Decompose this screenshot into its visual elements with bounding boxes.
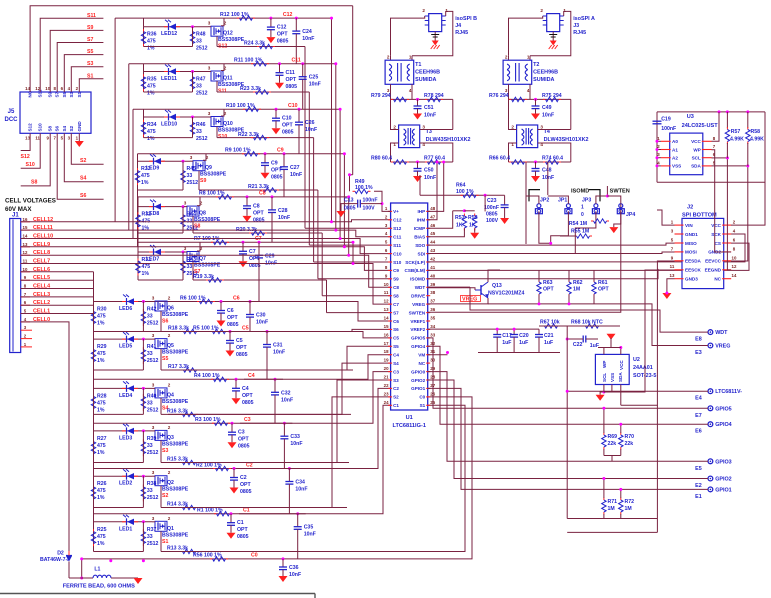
svg-text:J3: J3 xyxy=(573,23,579,29)
svg-text:15: 15 xyxy=(23,225,28,230)
svg-text:33: 33 xyxy=(147,400,153,406)
capacitor C9 OPT xyxy=(261,162,269,164)
svg-text:R3 100 1%: R3 100 1% xyxy=(195,417,221,423)
wire to C2 xyxy=(233,469,235,478)
svg-text:2: 2 xyxy=(168,333,171,338)
svg-text:100 1%: 100 1% xyxy=(456,189,474,195)
wire GPIO pin28 to E xyxy=(428,380,708,479)
LED5 xyxy=(122,338,126,340)
wire LTC6811V- to E4 xyxy=(567,390,708,392)
svg-text:2512: 2512 xyxy=(147,541,159,547)
svg-text:JP4: JP4 xyxy=(626,212,635,218)
wire Q7 source xyxy=(197,242,200,251)
svg-text:S8: S8 xyxy=(48,125,53,131)
svg-text:C6: C6 xyxy=(227,308,234,314)
svg-text:10: 10 xyxy=(732,255,737,260)
svg-text:E2: E2 xyxy=(695,483,702,489)
svg-text:C5: C5 xyxy=(236,338,243,344)
svg-text:SWTEN: SWTEN xyxy=(409,310,426,315)
svg-text:100V: 100V xyxy=(363,206,376,212)
svg-text:C6: C6 xyxy=(393,319,399,324)
wire bottom right rails xyxy=(566,430,568,519)
wire ICMP line xyxy=(419,175,421,195)
ground C48 xyxy=(531,176,540,182)
wire S8 line xyxy=(193,232,322,234)
svg-text:S5: S5 xyxy=(62,91,67,97)
resistor R79 294 xyxy=(391,98,394,100)
wire T1 secondary xyxy=(390,84,392,99)
svg-text:2: 2 xyxy=(511,125,514,130)
wire LED4 row xyxy=(94,387,153,389)
svg-text:OPT: OPT xyxy=(242,393,253,399)
svg-text:isoSPI A: isoSPI A xyxy=(573,16,595,22)
resistor R61 OPT xyxy=(593,280,595,283)
node LTC6811V- terminal E4 xyxy=(708,389,713,394)
wire S8 to U1 xyxy=(321,233,323,296)
wire S9 to U1 xyxy=(317,190,319,279)
svg-text:33: 33 xyxy=(196,84,202,90)
svg-text:33: 33 xyxy=(430,332,435,337)
svg-text:ISOMD: ISOMD xyxy=(571,189,589,195)
svg-text:OPT: OPT xyxy=(271,167,282,173)
resistor R58 4.99K xyxy=(747,112,749,128)
svg-text:1K: 1K xyxy=(456,223,463,229)
svg-text:22k: 22k xyxy=(625,441,634,447)
svg-text:33: 33 xyxy=(147,314,153,320)
svg-text:0805: 0805 xyxy=(227,322,239,328)
svg-text:2512: 2512 xyxy=(147,407,159,413)
svg-text:S12: S12 xyxy=(393,226,402,231)
svg-text:34: 34 xyxy=(430,324,435,329)
wire S3 line to U1 xyxy=(303,462,305,464)
svg-text:475: 475 xyxy=(97,534,106,540)
svg-text:0805: 0805 xyxy=(286,84,298,90)
svg-text:10nF: 10nF xyxy=(424,113,436,119)
wire Q6 source xyxy=(164,301,166,303)
wire to C33 xyxy=(283,423,285,436)
svg-text:R12 100 1%: R12 100 1% xyxy=(220,12,249,18)
svg-text:2512: 2512 xyxy=(147,321,159,327)
wire DRIVE to Q13 xyxy=(428,288,475,290)
svg-text:1%: 1% xyxy=(147,136,155,142)
svg-text:C19: C19 xyxy=(661,116,671,122)
capacitor C2 OPT xyxy=(230,477,238,479)
wire S9 line xyxy=(199,189,318,191)
resistor R17 3.3k xyxy=(181,369,184,371)
svg-text:0805: 0805 xyxy=(277,39,289,45)
svg-text:3: 3 xyxy=(152,382,155,387)
svg-text:OPT: OPT xyxy=(543,287,554,293)
svg-text:R70: R70 xyxy=(625,434,635,440)
wire to C6 xyxy=(220,302,222,311)
resistor R37 33 xyxy=(142,529,144,532)
svg-text:R34: R34 xyxy=(147,122,157,128)
capacitor C27 10nF xyxy=(280,166,288,168)
svg-text:12: 12 xyxy=(732,264,737,269)
svg-text:WDT: WDT xyxy=(715,330,728,336)
resistor R8 100 xyxy=(216,196,219,198)
wire U2 SDA xyxy=(620,385,622,406)
wire S3 to U1 xyxy=(300,380,391,463)
wire cell11 left vertical xyxy=(128,64,130,230)
wire to C30 xyxy=(249,302,251,315)
svg-text:C27: C27 xyxy=(290,165,300,171)
svg-text:LED5: LED5 xyxy=(119,344,132,350)
ground C11 xyxy=(275,83,284,89)
LED1 xyxy=(122,521,126,523)
wire LED5 row xyxy=(94,338,153,340)
svg-text:10nF: 10nF xyxy=(424,175,436,181)
wire C1 line to U1 xyxy=(239,405,391,513)
svg-text:C5: C5 xyxy=(242,325,249,331)
svg-text:LED3: LED3 xyxy=(119,435,132,441)
svg-text:0805: 0805 xyxy=(282,130,294,136)
svg-text:100nF: 100nF xyxy=(363,198,378,204)
svg-text:10nF: 10nF xyxy=(304,532,316,538)
svg-text:2: 2 xyxy=(387,55,390,60)
resistor R22 3.3k xyxy=(251,137,254,139)
wire cell10 left vertical xyxy=(132,109,134,238)
svg-text:S4: S4 xyxy=(62,125,67,131)
resistor R12 100 xyxy=(237,17,240,19)
wire to C20 xyxy=(513,329,515,334)
wire C23 to IHP xyxy=(484,195,486,211)
svg-text:FERRITE BEAD, 600 OHMS: FERRITE BEAD, 600 OHMS xyxy=(63,584,135,590)
svg-text:R46: R46 xyxy=(196,122,206,128)
wire C7 node line xyxy=(138,241,353,243)
wire Q13 collector xyxy=(488,270,500,282)
wire Q1 drain xyxy=(160,531,162,551)
svg-text:100nF: 100nF xyxy=(484,205,499,211)
svg-text:2512: 2512 xyxy=(196,46,208,52)
svg-text:475: 475 xyxy=(97,314,106,320)
svg-text:S10: S10 xyxy=(26,162,35,168)
svg-text:10nF: 10nF xyxy=(302,36,314,42)
svg-text:R78 294: R78 294 xyxy=(424,93,444,99)
capacitor C31 10nF xyxy=(263,344,271,346)
svg-text:S1: S1 xyxy=(77,91,82,97)
svg-text:OPT: OPT xyxy=(237,527,248,533)
svg-text:20: 20 xyxy=(384,366,389,371)
svg-text:BSS308PE: BSS308PE xyxy=(162,312,189,318)
ground U2 VSS xyxy=(596,395,605,401)
svg-text:0805: 0805 xyxy=(271,174,283,180)
wire block12 left edge xyxy=(143,27,145,47)
resistor R15 3.3k xyxy=(180,462,183,464)
svg-text:1: 1 xyxy=(581,205,584,211)
wire ISOMD bus xyxy=(428,269,658,279)
svg-text:0805: 0805 xyxy=(242,400,254,406)
svg-text:R24 3.3k: R24 3.3k xyxy=(244,41,265,47)
svg-text:2512: 2512 xyxy=(147,358,159,364)
capacitor C34 10nF xyxy=(285,481,293,483)
svg-text:BSS308PE: BSS308PE xyxy=(162,532,189,538)
svg-text:LED4: LED4 xyxy=(119,393,132,399)
svg-text:2: 2 xyxy=(505,55,508,60)
svg-text:LED1: LED1 xyxy=(119,526,132,532)
svg-text:A2: A2 xyxy=(672,156,678,161)
wire Q4 drain xyxy=(160,398,162,415)
svg-text:1: 1 xyxy=(409,55,412,60)
svg-text:VIN: VIN xyxy=(685,223,693,228)
wire V+ to pin1 xyxy=(374,191,382,203)
svg-text:R23 3.3k: R23 3.3k xyxy=(240,86,261,92)
resistor R4 100 xyxy=(211,378,214,380)
wire WDT to E8 xyxy=(470,287,708,332)
svg-text:MISO: MISO xyxy=(685,241,697,246)
svg-text:IHP: IHP xyxy=(418,209,426,214)
resistor R24 3.3k xyxy=(257,46,260,48)
resistor R19 3.3k xyxy=(206,279,209,281)
resistor R10 100 xyxy=(243,108,246,110)
svg-text:C36: C36 xyxy=(289,565,299,571)
svg-text:R29: R29 xyxy=(97,344,107,350)
svg-text:33: 33 xyxy=(187,173,193,179)
svg-text:S7: S7 xyxy=(55,91,60,97)
resistor R25 475 xyxy=(93,529,95,532)
svg-text:Q10: Q10 xyxy=(223,121,233,127)
wire Q12 drain xyxy=(216,36,218,46)
svg-text:isoSPI B: isoSPI B xyxy=(455,16,477,22)
svg-text:CELL VOLTAGES: CELL VOLTAGES xyxy=(5,198,56,205)
svg-text:LED9: LED9 xyxy=(146,166,159,172)
wire block9 bottom xyxy=(138,189,184,191)
svg-text:C29: C29 xyxy=(265,253,275,259)
svg-text:BAT46W-7-F: BAT46W-7-F xyxy=(40,557,70,563)
wire S5 to U1 xyxy=(300,346,391,370)
svg-text:3: 3 xyxy=(190,155,193,160)
border bottom xyxy=(0,593,315,595)
svg-text:0805: 0805 xyxy=(238,444,250,450)
svg-text:475: 475 xyxy=(142,264,151,270)
svg-text:R9 100 1%: R9 100 1% xyxy=(225,148,251,154)
svg-text:BSS308PE: BSS308PE xyxy=(200,172,227,178)
svg-text:39: 39 xyxy=(430,282,435,287)
resistor R78 294 xyxy=(425,98,428,100)
wire R71/R72 bottoms xyxy=(603,514,605,519)
wire T4 connections xyxy=(509,99,517,129)
svg-text:C9: C9 xyxy=(393,268,399,273)
svg-text:E1: E1 xyxy=(695,494,702,500)
svg-text:S8: S8 xyxy=(393,294,399,299)
svg-text:SDI: SDI xyxy=(418,251,426,256)
svg-text:4.99K: 4.99K xyxy=(750,137,764,143)
wire LED2 row xyxy=(94,475,153,477)
wire S10 stub xyxy=(21,133,41,168)
svg-text:Q4: Q4 xyxy=(167,392,174,398)
svg-text:100V: 100V xyxy=(486,218,499,224)
resistor R1 100 xyxy=(214,513,217,515)
resistor R36 475 xyxy=(143,29,145,32)
svg-text:S9: S9 xyxy=(393,277,399,282)
svg-text:S3: S3 xyxy=(69,91,74,97)
svg-text:R35: R35 xyxy=(147,77,157,83)
wire Q1 source xyxy=(164,521,166,523)
svg-text:33: 33 xyxy=(196,129,202,135)
wire Q2 source xyxy=(164,475,166,477)
svg-text:EESCK: EESCK xyxy=(685,268,702,273)
resistor R62 1M xyxy=(568,280,570,283)
wire VM pin31 xyxy=(428,354,448,356)
resistor R72 1M xyxy=(620,498,622,501)
capacitor C32 10nF xyxy=(271,391,279,393)
svg-text:1M: 1M xyxy=(608,506,615,512)
svg-text:J1: J1 xyxy=(12,213,19,219)
wire VREG to E3 xyxy=(620,304,708,346)
transistor Q13 NSV1C201MZ4 xyxy=(480,285,482,295)
svg-text:S1: S1 xyxy=(87,73,93,79)
svg-text:BSS308PE: BSS308PE xyxy=(162,399,189,405)
resistor R77 60.4 xyxy=(425,161,428,163)
wire LED11 row xyxy=(144,71,209,73)
svg-text:R28: R28 xyxy=(97,393,107,399)
svg-text:3: 3 xyxy=(152,425,155,430)
wire to C24 xyxy=(295,18,297,31)
svg-text:R63: R63 xyxy=(543,280,553,286)
svg-text:1%: 1% xyxy=(97,321,105,327)
wire S11 line xyxy=(217,91,309,93)
wire C4 node line xyxy=(94,378,284,380)
svg-text:R72: R72 xyxy=(625,499,635,505)
wire D2 to L1 xyxy=(68,562,70,579)
svg-text:R8 100 1%: R8 100 1% xyxy=(199,191,225,197)
svg-text:1%: 1% xyxy=(142,271,150,277)
LED10 xyxy=(164,116,168,118)
resistor R14 3.3k xyxy=(180,507,183,509)
transistor Q6 BSS308PE xyxy=(155,301,167,311)
wire S6 to U1 xyxy=(300,329,391,331)
svg-text:12: 12 xyxy=(384,299,389,304)
svg-text:VSS: VSS xyxy=(610,373,615,382)
svg-text:C22: C22 xyxy=(573,342,583,348)
svg-text:22k: 22k xyxy=(608,441,617,447)
svg-text:ICMP: ICMP xyxy=(414,226,425,231)
svg-text:VREF2: VREF2 xyxy=(410,327,425,332)
svg-text:0805: 0805 xyxy=(237,534,249,540)
capacitor C25 10nF xyxy=(299,76,307,78)
svg-text:R54 1M: R54 1M xyxy=(569,221,587,227)
svg-text:1K: 1K xyxy=(469,223,476,229)
wire U2 pins xyxy=(603,348,605,355)
capacitor C4 OPT xyxy=(232,387,240,389)
svg-text:16: 16 xyxy=(23,217,28,222)
wire S12 stub xyxy=(21,133,30,150)
svg-text:A1: A1 xyxy=(672,147,678,152)
wire Q9 drain xyxy=(198,171,200,190)
capacitor C48 10nF xyxy=(532,168,540,170)
node GPIO3 terminal E5 xyxy=(708,459,713,464)
svg-text:R2 100 1%: R2 100 1% xyxy=(196,462,222,468)
ground C5 xyxy=(226,351,235,357)
svg-text:S3: S3 xyxy=(162,448,168,454)
wire IHM xyxy=(428,162,437,220)
svg-text:DRIVE: DRIVE xyxy=(411,294,425,299)
wire S6 line to U1 xyxy=(309,331,311,333)
svg-text:RJ45: RJ45 xyxy=(455,30,468,36)
svg-text:44: 44 xyxy=(430,240,435,245)
capacitor C12 OPT xyxy=(267,26,275,28)
capacitor C29 10nF xyxy=(255,254,263,256)
svg-text:11: 11 xyxy=(670,264,675,269)
svg-text:2512: 2512 xyxy=(196,91,208,97)
svg-text:C6: C6 xyxy=(233,295,240,301)
transistor Q1 BSS308PE xyxy=(155,521,167,531)
wire Q10 drain xyxy=(216,127,218,138)
wire block10 bottom xyxy=(144,137,193,139)
wire R52 to gnd xyxy=(474,229,476,233)
wire S6 stub xyxy=(57,133,103,199)
wire S7 to U1 xyxy=(326,280,328,313)
wire J5 gnd xyxy=(78,133,80,141)
wire T3 connections xyxy=(391,99,399,129)
wire block11 bottom xyxy=(144,91,193,93)
svg-text:14: 14 xyxy=(384,316,389,321)
wire block5 bottom xyxy=(94,369,144,371)
wire Q7 drain xyxy=(192,262,194,281)
svg-text:Q13: Q13 xyxy=(492,283,502,289)
capacitor C8 OPT xyxy=(243,205,251,207)
svg-text:R30: R30 xyxy=(97,307,107,313)
wire to C7 xyxy=(242,242,244,251)
svg-text:C3: C3 xyxy=(393,369,399,374)
svg-text:12: 12 xyxy=(23,250,28,255)
op-amp U1 LTC6811IG-1 body xyxy=(391,203,428,410)
node GPIO2 terminal E2 xyxy=(708,476,713,481)
svg-text:C10: C10 xyxy=(393,251,402,256)
svg-text:C30: C30 xyxy=(256,313,266,319)
svg-text:24LC025-UST: 24LC025-UST xyxy=(682,123,719,129)
svg-text:40: 40 xyxy=(430,273,435,278)
svg-text:GPIO5: GPIO5 xyxy=(411,336,425,341)
svg-text:R64: R64 xyxy=(456,183,466,189)
wire block8 left edge xyxy=(137,207,139,233)
wire C0 line xyxy=(82,558,470,560)
svg-text:R48: R48 xyxy=(196,32,206,38)
resistor R34 475 xyxy=(143,120,145,123)
svg-text:10: 10 xyxy=(384,282,389,287)
svg-text:VREF1: VREF1 xyxy=(410,319,425,324)
svg-text:S10: S10 xyxy=(38,123,43,132)
svg-text:C10: C10 xyxy=(288,103,298,109)
wire block11 left edge xyxy=(143,72,145,93)
resistor R53 1K xyxy=(453,210,465,212)
svg-text:LED12: LED12 xyxy=(161,31,177,37)
wire block3 left edge xyxy=(93,431,95,463)
wire LED10 row xyxy=(144,116,209,118)
LED11 xyxy=(164,71,168,73)
svg-text:C13: C13 xyxy=(344,198,354,204)
svg-text:33: 33 xyxy=(196,39,202,45)
resistor R47 33 xyxy=(192,74,194,77)
svg-text:100 1%: 100 1% xyxy=(355,185,373,191)
svg-text:S2: S2 xyxy=(162,493,168,499)
svg-text:S6: S6 xyxy=(162,319,168,325)
svg-text:GPIO2: GPIO2 xyxy=(411,378,425,383)
svg-text:Q3: Q3 xyxy=(167,435,174,441)
svg-text:LED6: LED6 xyxy=(119,306,132,312)
svg-text:24: 24 xyxy=(384,400,389,405)
svg-text:R53: R53 xyxy=(455,215,465,221)
op-amp U2 24AA01 xyxy=(595,354,629,384)
wire C10 to U1 xyxy=(339,109,341,238)
resistor R80 60.4 xyxy=(391,161,394,163)
svg-text:R80 60.4: R80 60.4 xyxy=(371,156,392,162)
wire block11 left join xyxy=(143,64,145,72)
transformer T3 DLW43SH101XK2 xyxy=(399,125,420,148)
svg-text:SDA: SDA xyxy=(618,372,623,382)
svg-text:J4: J4 xyxy=(455,23,461,29)
transistor Q4 BSS308PE xyxy=(155,388,167,398)
